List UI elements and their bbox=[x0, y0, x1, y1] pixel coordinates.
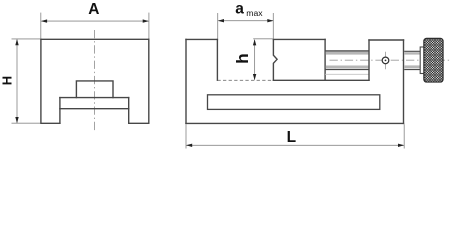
dimension H extension lines bbox=[12, 39, 41, 123]
screw axis centerline (horizontal) bbox=[330, 59, 450, 61]
dimension L arrow line bbox=[186, 144, 404, 147]
dimension h extension line (top) bbox=[253, 38, 273, 40]
dimension A arrow line bbox=[41, 19, 149, 22]
top edge of fixed jaw bbox=[186, 38, 217, 40]
svg-text:h: h bbox=[233, 53, 252, 63]
dimension a_max arrow line bbox=[218, 19, 274, 22]
svg-text:a: a bbox=[235, 0, 244, 17]
label a_max bbox=[235, 0, 263, 18]
svg-text:max: max bbox=[246, 8, 263, 18]
lead screw left segment bbox=[325, 51, 369, 74]
dimension H arrow line bbox=[15, 39, 18, 123]
hidden bed line in jaw gap (dashed) bbox=[217, 79, 273, 81]
svg-text:A: A bbox=[88, 1, 99, 18]
washer / collar bbox=[420, 47, 424, 74]
svg-text:L: L bbox=[287, 129, 296, 146]
dimension L extension lines bbox=[186, 124, 404, 148]
lead screw right segment bbox=[404, 51, 420, 69]
dimension a_max extension lines bbox=[218, 13, 274, 39]
pin circle on end block bbox=[382, 52, 389, 69]
jaw block rectangle (end view) bbox=[76, 81, 113, 98]
dimension h arrow line bbox=[253, 39, 256, 80]
slot window in base bbox=[208, 95, 380, 110]
movable jaw block with break zigzag on left face bbox=[273, 39, 325, 80]
knurled knob bbox=[424, 38, 443, 82]
end bearing block bbox=[369, 40, 404, 123]
bed rail line under jaw and screw bbox=[273, 79, 369, 81]
centerline (vertical, end view) bbox=[94, 30, 96, 132]
side view body: left wall bbox=[186, 39, 404, 123]
fixed jaw right face bbox=[216, 39, 218, 80]
end view body outline bbox=[41, 39, 149, 123]
dimension A extension lines bbox=[41, 13, 149, 39]
svg-text:H: H bbox=[0, 76, 15, 85]
body bottom bbox=[186, 122, 404, 124]
